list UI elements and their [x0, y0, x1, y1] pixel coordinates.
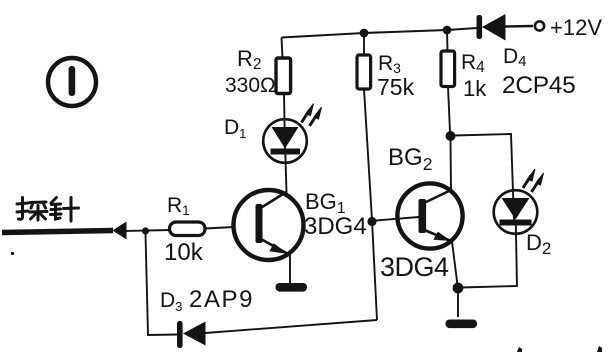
value 330 ohm — [225, 74, 276, 97]
wire arrow to node — [126, 230, 170, 231]
label D3 — [160, 289, 182, 314]
LED D1 light arrows — [302, 104, 322, 127]
ground (BG2 emitter) — [446, 320, 478, 329]
value 10k — [164, 239, 204, 266]
node at probe junction — [142, 227, 149, 234]
LED D2 light arrows — [523, 169, 544, 192]
diode D3 cathode bar — [177, 321, 183, 348]
transistor BG1 — [234, 190, 304, 260]
wire R3 down to node B — [364, 89, 377, 320]
svg-text:3DG4: 3DG4 — [380, 252, 449, 282]
value 2CP45 — [502, 72, 575, 99]
wire BG2 collector to node C — [450, 139, 453, 190]
label R1 — [167, 194, 190, 218]
node D (emitter junction) — [453, 283, 464, 294]
label R4 — [461, 51, 485, 76]
LED D1 — [263, 119, 307, 163]
probe lead wire (thick) — [2, 231, 113, 233]
wire D3 to R3 bottom — [205, 320, 377, 333]
svg-text:2CP45: 2CP45 — [502, 72, 575, 99]
wire BG1 emitter down — [289, 255, 291, 284]
wire D4 to terminal — [505, 25, 533, 28]
figure number 1 (circled) — [48, 58, 96, 106]
wire probe node down to D3 — [146, 234, 149, 335]
diode D4 triangle — [482, 14, 506, 41]
label R3 — [378, 52, 401, 76]
ground (BG1 emitter) — [276, 283, 308, 292]
wire top rail — [282, 28, 478, 38]
svg-text:3DG4: 3DG4 — [304, 213, 367, 240]
resistor R4 — [441, 51, 455, 87]
label +12V — [550, 15, 602, 40]
node C (collector junction) — [446, 131, 456, 141]
label BG2 — [388, 144, 432, 174]
wire R1 to BG1 base — [205, 227, 234, 229]
wire D1 to R2 — [284, 94, 285, 150]
svg-text:10k: 10k — [164, 239, 204, 266]
label D2 — [526, 230, 551, 258]
value 2AP9 — [189, 286, 254, 313]
svg-text:330Ω: 330Ω — [225, 74, 276, 97]
stray mark bottom left — [11, 252, 14, 255]
wire BG2 emitter down — [452, 242, 458, 286]
wire rail to R3 — [363, 33, 365, 55]
wire bottom corner to D3 — [147, 334, 178, 337]
wire node B to BG2 base — [376, 217, 419, 221]
resistor R2 — [276, 58, 291, 94]
+12V terminal — [535, 21, 544, 30]
transistor BG2 — [397, 183, 462, 248]
wire D2 down and left to node D — [461, 224, 517, 288]
wire node C to D2 — [454, 134, 514, 221]
diode D3 triangle — [183, 322, 206, 346]
stray mark bottom right — [597, 346, 602, 352]
probe label 探针 — [17, 198, 79, 222]
label R2 — [237, 46, 262, 73]
node rail/R3 — [360, 29, 369, 38]
label D4 — [503, 45, 527, 70]
value 3DG4 (BG2) — [380, 252, 449, 282]
wire BG1 collector to D1 — [285, 152, 286, 192]
value 3DG4 (BG1) — [304, 213, 367, 240]
wire node D to ground — [457, 288, 459, 317]
diode D4 cathode bar — [477, 15, 483, 39]
value 1k — [463, 76, 487, 101]
wire R2 to rail — [282, 38, 283, 59]
probe arrowhead — [113, 222, 127, 240]
label D1 — [224, 116, 246, 141]
stray mark bottom middle — [517, 347, 522, 352]
label BG1 — [305, 189, 346, 217]
LED D2 — [494, 190, 538, 234]
resistor R1 — [170, 222, 206, 236]
svg-text:75k: 75k — [377, 74, 415, 100]
svg-text:+12V: +12V — [550, 15, 602, 40]
resistor R3 — [357, 55, 371, 89]
node B (BG2 base junction) — [367, 217, 376, 226]
svg-text:2AP9: 2AP9 — [189, 286, 254, 313]
value 75k — [377, 74, 415, 100]
wire R4 down to node C — [448, 87, 450, 133]
svg-text:1k: 1k — [463, 76, 487, 101]
node rail/R4 — [443, 26, 452, 35]
wire rail to R4 — [446, 30, 449, 51]
